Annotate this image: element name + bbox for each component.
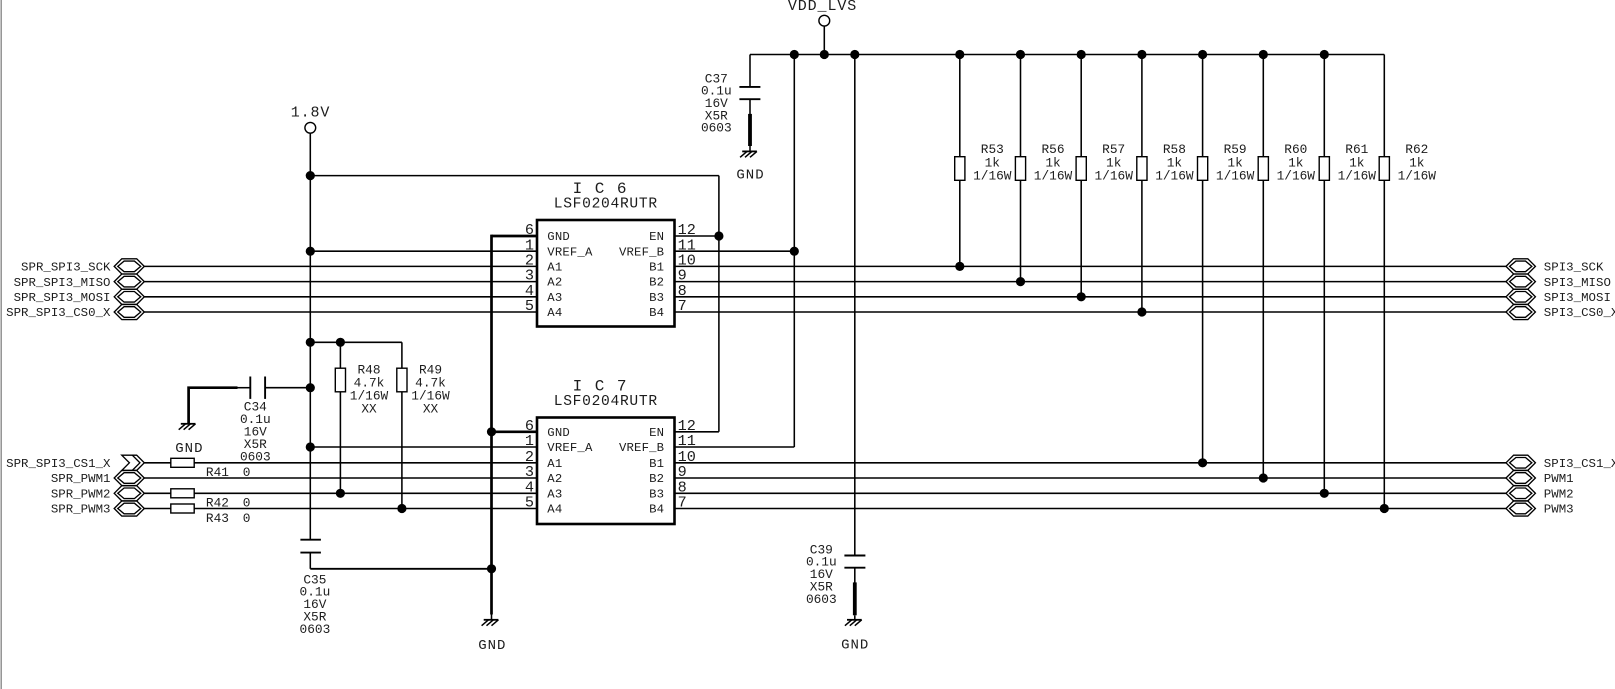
svg-text:0603: 0603 [300,622,331,637]
wire SPR_PWM1 to IC7 A2 [144,477,537,479]
wire SPR_SPI3_MOSI to IC6 A3 [144,296,537,298]
svg-text:0: 0 [243,465,251,480]
svg-text:A1: A1 [547,261,562,275]
svg-text:B4: B4 [649,306,664,320]
svg-text:EN: EN [649,426,664,440]
wire VREF_A to IC6 pin1 [310,250,537,252]
wire IC7 EN pin12 [675,431,719,433]
svg-text:IC6: IC6 [573,180,639,198]
svg-text:0: 0 [243,496,251,511]
svg-text:GND: GND [478,638,506,654]
junction rail [1198,50,1207,59]
junction pullup [1137,307,1146,316]
svg-text:GND: GND [175,441,203,457]
node PWM1 [1506,470,1574,486]
junction VREF_A pullup wire [306,338,315,347]
ground GND (C39) [845,620,862,626]
op-amp IC6 LSF0204RUTR [525,180,696,327]
wire IC7 B4 to PWM3 [675,508,1507,510]
svg-text:A3: A3 [547,291,562,305]
junction rail [1259,50,1268,59]
junction rail [1320,50,1329,59]
svg-text:IC7: IC7 [573,378,639,396]
node SPR_PWM1 [51,470,144,486]
svg-text:LSF0204RUTR: LSF0204RUTR [554,196,658,212]
wire VDD_LVS stub [823,26,825,54]
svg-text:LSF0204RUTR: LSF0204RUTR [554,394,658,410]
svg-text:A2: A2 [547,276,562,290]
svg-text:VREF_A: VREF_A [547,441,593,455]
junction pullup [1077,292,1086,301]
wire C37 bar to ground [749,146,751,151]
svg-text:SPI3_MISO: SPI3_MISO [1544,276,1611,290]
svg-text:SPR_SPI3_MISO: SPR_SPI3_MISO [14,276,111,290]
wire R61 to net [1323,180,1325,493]
svg-text:SPR_PWM1: SPR_PWM1 [51,472,111,486]
ground GND (bus) [482,620,499,626]
wire IC6 B2 to SPI3_MISO [675,281,1507,283]
svg-text:0603: 0603 [701,121,732,136]
junction pullup [1259,473,1268,482]
svg-text:A4: A4 [547,503,562,517]
wire 1.8V stub [309,133,311,175]
svg-text:1/16W: 1/16W [1094,169,1133,184]
svg-text:1/16W: 1/16W [973,169,1012,184]
svg-text:B1: B1 [649,457,664,471]
resistor R60 [1258,157,1268,181]
node SPR_PWM3 [51,501,144,517]
wire IC7 B2 to PWM1 [675,477,1507,479]
wire GND bus vertical [490,235,493,615]
node SPR_SPI3_MISO [14,274,145,290]
svg-text:1/16W: 1/16W [1034,169,1073,184]
svg-text:1/16W: 1/16W [1155,169,1194,184]
svg-text:XX: XX [361,401,377,416]
wire C39 net vertical [854,55,856,556]
svg-text:SPR_SPI3_CS1_X: SPR_SPI3_CS1_X [6,457,111,471]
svg-text:R41: R41 [206,465,229,480]
svg-text:GND: GND [841,638,869,654]
svg-text:B1: B1 [649,261,664,275]
node SPI3_CS1_X [1506,455,1615,471]
wire IC7 B3 to PWM2 [675,492,1507,494]
node SPI3_MISO [1506,274,1611,290]
junction VREF_A IC7 [306,442,315,451]
capacitor C39 [844,556,865,568]
resistor R48 [335,368,345,392]
wire SPR_SPI3_CS1_X to R41 [144,462,171,464]
junction pullup [955,262,964,271]
wire C34 GND thick L [189,388,238,423]
svg-text:SPI3_CS0_X: SPI3_CS0_X [1544,306,1615,320]
capacitor C34 [237,377,265,399]
node SPI3_MOSI [1506,289,1611,305]
junction GND bus IC7 pin6 [487,427,496,436]
svg-text:GND: GND [547,426,570,440]
resistor R41 [171,458,194,467]
node SPR_SPI3_CS1_X [6,455,144,471]
junction GND bus C35 [487,564,496,573]
wire R48 top stub [339,342,341,368]
wire IC6 B3 to SPI3_MOSI [675,296,1507,298]
svg-text:5: 5 [525,297,534,315]
wire VREF_A net vertical [309,176,311,540]
wire GND bus IC6 pin6 [492,235,538,238]
wire C35 to GND bus [310,568,491,570]
svg-text:PWM3: PWM3 [1544,503,1574,517]
wire VREF_A to R48 R49 tops [310,341,402,343]
resistor R53 [955,157,965,181]
wire C34 to VREF_A net [265,387,310,389]
wire VDD_LVS rail [750,54,1384,56]
svg-text:1/16W: 1/16W [1338,169,1377,184]
junction pullup [1016,277,1025,286]
svg-text:VREF_B: VREF_B [619,245,664,259]
node PWM2 [1506,486,1574,502]
supply VDD_LVS [788,0,857,26]
resistor R42 [171,489,194,498]
node SPR_SPI3_CS0_X [6,304,144,320]
wire C39 bar to ground [854,615,856,619]
svg-text:A1: A1 [547,457,562,471]
wire rail to R57 [1080,55,1082,157]
wire C37 GND thick stub [748,114,752,146]
supply 1.8V [291,105,331,134]
svg-text:B2: B2 [649,276,664,290]
junction rail [1016,50,1025,59]
wire IC6 B1 to SPI3_SCK [675,265,1507,267]
node SPR_SPI3_SCK [21,259,144,275]
wire GND bus IC7 pin6 [492,430,538,433]
wire SPR_SPI3_CS0_X to IC6 A4 [144,311,537,313]
wire R48 to SPR_PWM2 [339,392,341,493]
svg-text:VDD_LVS: VDD_LVS [788,0,857,15]
wire R43 to IC7 A4 [194,508,537,510]
svg-text:R43: R43 [206,511,229,526]
junction R49 bottom [397,504,406,513]
wire rail to R58 [1141,55,1143,157]
wire SPR_SPI3_SCK to IC6 A1 [144,265,537,267]
svg-text:XX: XX [423,401,439,416]
wire R53 to net [959,180,961,266]
junction pullup [1380,504,1389,513]
svg-text:1.8V: 1.8V [291,105,331,122]
wire SPR_PWM3 to R43 [144,508,171,510]
wire IC6 EN pin12 [675,235,719,237]
svg-text:A3: A3 [547,487,562,501]
wire R42 to IC7 A3 [194,492,537,494]
resistor R49 [397,368,407,392]
node SPR_SPI3_MOSI [14,289,145,305]
wire C39 to GND bar [854,568,856,583]
svg-text:0603: 0603 [806,592,837,607]
svg-text:SPI3_CS1_X: SPI3_CS1_X [1544,457,1615,471]
wire SPR_PWM2 to R42 [144,492,171,494]
svg-text:7: 7 [678,494,687,512]
svg-text:PWM2: PWM2 [1544,488,1574,502]
svg-text:PWM1: PWM1 [1544,472,1574,486]
junction R48 bottom [336,489,345,498]
resistor R61 [1319,157,1329,181]
wire VREF_A to IC7 pin1 [310,446,537,448]
wire C35 bottom stub [309,553,311,569]
wire IC6 VREF_B pin11 [675,250,795,252]
junction EN net [714,231,723,240]
wire IC7 B1 to SPI3_CS1_X [675,462,1507,464]
svg-text:EN: EN [649,230,664,244]
wire bus to ground [491,615,493,620]
svg-text:GND: GND [736,168,764,184]
wire R41 to IC7 A1 [194,462,537,464]
junction rail [955,50,964,59]
svg-text:SPR_PWM3: SPR_PWM3 [51,503,111,517]
node SPI3_CS0_X [1506,304,1615,320]
ground GND (C37) [740,151,757,157]
svg-text:1/16W: 1/16W [1398,169,1437,184]
svg-text:A2: A2 [547,472,562,486]
svg-text:B4: B4 [649,503,664,517]
capacitor C37 [739,55,760,100]
resistor R62 [1379,157,1389,181]
junction VREF_A IC6 [306,247,315,256]
wire R56 to net [1020,180,1022,281]
junction 1.8V branch [306,171,315,180]
node SPR_PWM2 [51,486,144,502]
svg-text:SPR_SPI3_SCK: SPR_SPI3_SCK [21,261,111,275]
wire rail to R61 [1323,55,1325,157]
ground GND (C34) [179,424,196,430]
junction rail [1077,50,1086,59]
svg-text:7: 7 [678,297,687,315]
junction rail VDD [820,50,829,59]
wire VREF_B net vertical [793,55,795,448]
wire SPR_SPI3_MISO to IC6 A2 [144,281,537,283]
capacitor C35 [300,540,321,553]
svg-text:B3: B3 [649,291,664,305]
junction rail [1137,50,1146,59]
wire rail to R56 [1020,55,1022,157]
wire R49 to SPR_PWM3 [401,392,403,509]
svg-text:1/16W: 1/16W [1277,169,1316,184]
junction pullup [1198,458,1207,467]
wire R62 to net [1383,180,1385,508]
junction C34 [306,383,315,392]
wire R49 top stub [401,342,403,368]
wire rail to R59 [1202,55,1204,157]
svg-text:SPR_SPI3_MOSI: SPR_SPI3_MOSI [14,291,111,305]
wire R60 to net [1262,180,1264,478]
svg-text:B2: B2 [649,472,664,486]
svg-text:5: 5 [525,494,534,512]
svg-text:A4: A4 [547,306,562,320]
resistor R58 [1137,157,1147,181]
svg-text:SPI3_SCK: SPI3_SCK [1544,261,1604,275]
wire rail to R62 [1383,55,1385,157]
junction R48 top [336,338,345,347]
resistor R56 [1015,157,1025,181]
resistor R57 [1076,157,1086,181]
wire rail to R53 [959,55,961,157]
wire R58 to net [1141,180,1143,312]
wire IC6 B4 to SPI3_CS0_X [675,311,1507,313]
node PWM3 [1506,501,1574,517]
wire IC7 VREF_B pin11 [675,446,795,448]
sheet left border [0,0,2,689]
svg-text:SPI3_MOSI: SPI3_MOSI [1544,291,1611,305]
svg-text:1/16W: 1/16W [1216,169,1255,184]
resistor R43 [171,504,194,513]
svg-text:GND: GND [547,230,570,244]
wire R57 to net [1080,180,1082,296]
resistor R59 [1198,157,1208,181]
junction pullup [1320,489,1329,498]
svg-text:R42: R42 [206,496,229,511]
wire C37 to GND bar [749,99,751,114]
junction VREF_B IC6 [790,247,799,256]
svg-text:B3: B3 [649,487,664,501]
wire C39 GND thick stub [853,582,857,615]
svg-text:VREF_B: VREF_B [619,441,664,455]
svg-text:VREF_A: VREF_A [547,245,593,259]
svg-text:SPR_SPI3_CS0_X: SPR_SPI3_CS0_X [6,306,111,320]
wire EN net vertical [718,176,720,432]
op-amp IC7 LSF0204RUTR [525,378,696,525]
junction rail C39 [850,50,859,59]
svg-text:0: 0 [243,511,251,526]
node SPI3_SCK [1506,259,1604,275]
wire R59 to net [1202,180,1204,463]
svg-text:SPR_PWM2: SPR_PWM2 [51,488,111,502]
wire 1.8V horizontal to EN net [310,175,719,177]
wire rail to R60 [1262,55,1264,157]
junction rail VREF_B [790,50,799,59]
svg-text:0603: 0603 [240,449,271,464]
